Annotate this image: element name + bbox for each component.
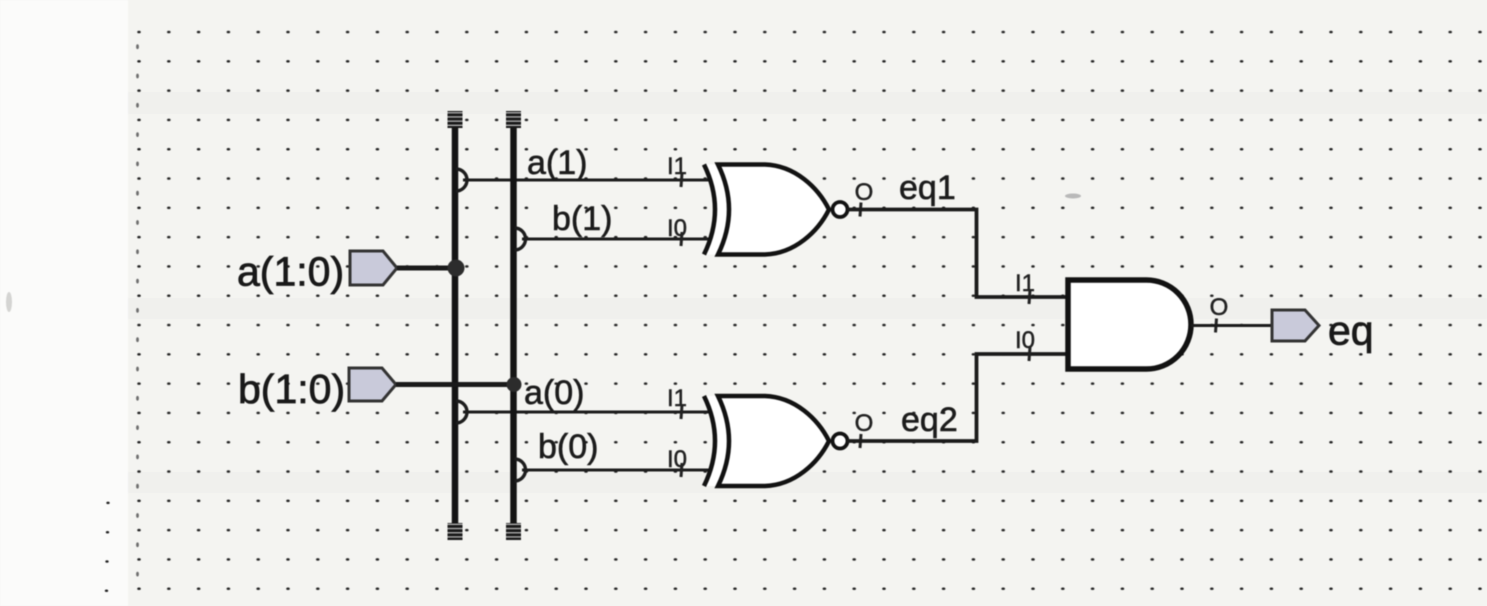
left edge half-step ticks xyxy=(136,44,139,576)
svg-text:I0: I0 xyxy=(667,446,687,473)
pin tick I1 of U1 xyxy=(681,173,682,187)
svg-text:eq1: eq1 xyxy=(899,169,956,207)
wire b(1:0) to bus2 xyxy=(396,382,514,387)
output port eq xyxy=(1272,308,1374,354)
bus tap a(1) xyxy=(456,169,467,191)
svg-text:eq2: eq2 xyxy=(901,401,958,439)
svg-text:a(0): a(0) xyxy=(524,374,584,412)
bus tap a(0) xyxy=(456,401,467,423)
svg-text:b(1): b(1) xyxy=(552,200,612,238)
bus a(1:0) vertical xyxy=(452,118,459,534)
svg-text:I1: I1 xyxy=(667,385,687,412)
svg-text:a(1): a(1) xyxy=(527,144,587,182)
svg-text:O: O xyxy=(1210,294,1229,321)
xnor gate U1 xyxy=(704,165,848,255)
svg-text:I0: I0 xyxy=(667,215,687,242)
pin tick I0 of U3 xyxy=(1029,347,1030,361)
junction on bus1 xyxy=(448,260,465,277)
wire eq1 xyxy=(847,169,1068,297)
pin tick I0 of U2 xyxy=(681,463,682,477)
pin tick I0 of U1 xyxy=(681,232,682,246)
svg-text:I1: I1 xyxy=(1015,270,1035,297)
pin tick O of U3 xyxy=(1216,319,1217,333)
bus terminator bottom bus1 xyxy=(448,523,463,540)
scan speck xyxy=(1065,194,1081,199)
wire a(1) xyxy=(463,144,712,182)
svg-text:I0: I0 xyxy=(1015,327,1035,354)
svg-text:eq: eq xyxy=(1328,308,1374,354)
junction on bus2 xyxy=(507,377,522,392)
pin tick O of U2 xyxy=(860,434,861,448)
bus terminator top bus1 xyxy=(448,111,463,128)
pin tick O of U1 xyxy=(860,203,861,217)
svg-text:O: O xyxy=(855,410,874,437)
pin tick I1 of U2 xyxy=(681,405,682,419)
svg-text:a(1:0): a(1:0) xyxy=(237,249,344,295)
input port b(1:0) xyxy=(238,366,396,412)
xnor gate U2 xyxy=(704,396,848,486)
svg-text:b(0): b(0) xyxy=(538,428,598,466)
bus b(1:0) vertical xyxy=(510,118,517,534)
input port a(1:0) xyxy=(237,249,397,295)
wire b(0) xyxy=(522,428,712,470)
svg-text:O: O xyxy=(855,179,874,206)
bus tap b(0) xyxy=(515,459,526,481)
bus tap b(1) xyxy=(515,228,526,250)
and gate U3 xyxy=(1068,280,1191,369)
stray margin dots bottom-left xyxy=(105,502,110,592)
wire eq output xyxy=(1191,324,1272,327)
svg-text:b(1:0): b(1:0) xyxy=(238,366,345,412)
wire a(1:0) to bus1 xyxy=(397,266,456,271)
wire a(0) xyxy=(463,374,712,412)
wire b(1) xyxy=(522,200,712,239)
bus terminator bottom bus2 xyxy=(506,523,521,540)
svg-text:I1: I1 xyxy=(667,153,687,180)
wire eq2 xyxy=(847,354,1068,441)
bus terminator top bus2 xyxy=(506,111,521,128)
pin tick I1 of U3 xyxy=(1029,290,1030,304)
